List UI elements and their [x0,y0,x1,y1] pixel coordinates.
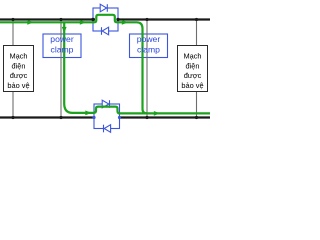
svg-text:bảo vệ: bảo vệ [7,81,29,90]
I/O pad cell bottom box [94,104,120,129]
svg-text:điện: điện [186,61,200,70]
junction top pad cell left pin [91,18,94,21]
svg-text:clamp: clamp [137,45,160,55]
arrow right after top pad cell [122,20,128,25]
svg-text:Mạch: Mạch [9,52,27,61]
wire left clamp vertical [60,20,62,118]
diode D4 cathode bar [103,125,105,133]
protected circuit block left [4,46,34,92]
power clamp U2 box [130,34,168,58]
protected circuit block right [178,46,208,92]
junction bottom pad cell right pin [118,116,121,119]
junction VSS left block [11,116,14,119]
svg-text:được: được [184,71,202,80]
svg-text:power: power [50,34,74,44]
junction VSS left clamp [59,116,62,119]
diode D2 top box down-diode triangle [102,27,108,35]
diode D3 cathode bar [109,100,111,108]
svg-text:Mạch: Mạch [183,52,201,61]
diode D4 bottom box down-diode triangle [104,125,110,133]
wire left block to VDD [12,20,14,46]
junction VSS right block [195,116,198,119]
diode D2 cathode bar [101,27,103,35]
diode D1 top box up-diode triangle [100,4,106,12]
wire right clamp vertical [146,20,148,118]
arrow right before bottom pad cell [85,111,91,116]
arrow right on top-left trace [27,20,33,25]
wire VDD rail right segment [117,18,211,20]
wire VSS rail left segment [0,116,94,118]
arrow down into left clamp [62,27,67,33]
junction VSS right clamp [145,116,148,119]
svg-text:power: power [137,34,161,44]
arrow right on bottom-right trace [154,111,160,116]
svg-text:bảo vệ: bảo vệ [181,81,203,90]
wire VSS rail right segment [120,116,211,118]
svg-text:được: được [10,71,28,80]
wire right block to VDD [196,20,198,46]
junction VDD right block [195,18,198,21]
junction top pad cell right pin [116,18,119,21]
svg-text:điện: điện [12,61,26,70]
ESD current path top green trace [0,15,147,114]
junction VDD left clamp [59,18,62,21]
junction VDD right clamp [145,18,148,21]
power clamp U1 box [43,34,81,58]
diode D1 cathode bar [106,4,108,12]
wire left block to VSS [12,92,14,118]
junction bottom pad cell left pin [92,116,95,119]
svg-text:clamp: clamp [51,45,74,55]
I/O pad cell top box [93,8,118,31]
arrow right before top pad cell [80,20,86,25]
wire right block to VSS [196,92,198,118]
ESD current path left branch green trace [64,22,210,113]
wire VDD rail left segment [0,18,95,20]
junction VDD left block [11,18,14,21]
diode D3 bottom box up-diode triangle [102,100,109,108]
